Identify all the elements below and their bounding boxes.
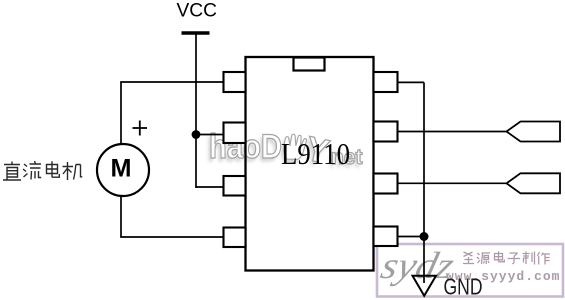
svg-text:L9110: L9110	[281, 136, 350, 171]
svg-text:GND: GND	[444, 274, 483, 300]
svg-text:M: M	[111, 155, 132, 183]
svg-text:VCC: VCC	[177, 1, 218, 22]
